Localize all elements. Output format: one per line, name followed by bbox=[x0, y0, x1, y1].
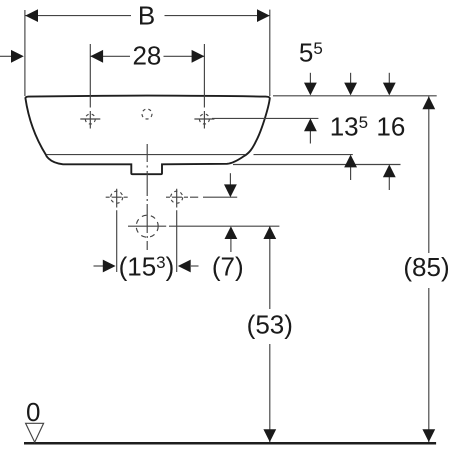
extension line right mounting hole (15.3 dim) bbox=[176, 189, 178, 272]
dimension 28: right arrow bbox=[192, 50, 205, 63]
svg-text:55: 55 bbox=[299, 38, 323, 68]
floor line bbox=[24, 442, 436, 445]
svg-text:(85): (85) bbox=[403, 252, 449, 282]
basin outline bbox=[25, 96, 269, 175]
dim (53): top arrow (up) bbox=[263, 226, 276, 239]
left tap hole crosshair bbox=[80, 114, 100, 124]
dimension B: right arrow bbox=[257, 9, 270, 22]
dim 5.5: bottom arrow (up) bbox=[304, 118, 317, 143]
dimension 28: line bbox=[90, 55, 204, 57]
reference line L5: mounting hole level (7 top) bbox=[203, 196, 237, 198]
svg-text:(53): (53) bbox=[247, 310, 293, 340]
dim (85): vertical line bbox=[428, 96, 430, 442]
dim (7): top arrow (down) bbox=[224, 173, 237, 197]
svg-text:135: 135 bbox=[330, 112, 368, 142]
svg-text:16: 16 bbox=[376, 112, 405, 142]
dimension B: line bbox=[25, 15, 269, 17]
dim 16: top arrow (down) bbox=[383, 73, 396, 96]
dim (15.3): right arrow pointing left bbox=[178, 260, 199, 273]
dim (7): bottom arrow (up) bbox=[225, 226, 238, 252]
dim 13.5: bottom arrow (up) bbox=[344, 155, 357, 180]
dim (85): bottom arrow (down) bbox=[422, 429, 435, 442]
dim (15.3): left arrow pointing right bbox=[94, 260, 116, 273]
svg-text:B: B bbox=[138, 1, 155, 31]
middle tap hole (dashed circle) bbox=[142, 109, 152, 119]
dim (53): bottom arrow (down) bbox=[263, 429, 276, 442]
dimension B: left arrow bbox=[25, 9, 38, 22]
svg-text:(153): (153) bbox=[119, 252, 175, 282]
dimension B: right extension line bbox=[269, 10, 271, 96]
dim 16: bottom arrow (up) bbox=[383, 165, 396, 191]
svg-text:28: 28 bbox=[132, 41, 161, 71]
dim (85): top arrow (up) bbox=[422, 96, 435, 109]
centerline of basin (dash-dot vertical) bbox=[146, 144, 148, 250]
extension line left tap hole (28 dim) bbox=[89, 44, 91, 129]
drain hole (dashed circle) bbox=[136, 215, 158, 237]
reference line L1: top rim level bbox=[273, 95, 437, 97]
reference line L4: basin bottom level (16 bottom) bbox=[233, 164, 401, 166]
off-page arrow at left edge pointing to basin edge bbox=[0, 55, 11, 57]
left mounting hole crosshair bbox=[106, 191, 128, 203]
basin interior front-edge line extension to 13.5 arrow bbox=[254, 154, 353, 156]
dimension 28: left arrow bbox=[90, 50, 103, 63]
reference line L6: drain level (7 bottom / 53 top) bbox=[128, 225, 279, 227]
dim (53): vertical line bbox=[269, 226, 271, 442]
svg-text:(7): (7) bbox=[212, 252, 244, 282]
right tap hole crosshair bbox=[194, 114, 214, 124]
svg-text:0: 0 bbox=[26, 397, 40, 427]
dim 5.5: top arrow (down) bbox=[304, 73, 317, 96]
basin interior front-edge line (13.5 level), left of right wall bbox=[47, 154, 246, 156]
dimension B: left extension line bbox=[24, 10, 26, 96]
extension line right tap hole (28 dim) bbox=[203, 44, 205, 129]
reference line L2: tap hole level (5.5 bottom) bbox=[212, 117, 318, 119]
dim 13.5: top arrow (down) bbox=[344, 73, 357, 96]
extension line left mounting hole (15.3 dim) bbox=[116, 189, 118, 272]
datum triangle (level 0) bbox=[26, 423, 44, 442]
right mounting hole crosshair bbox=[166, 191, 198, 203]
